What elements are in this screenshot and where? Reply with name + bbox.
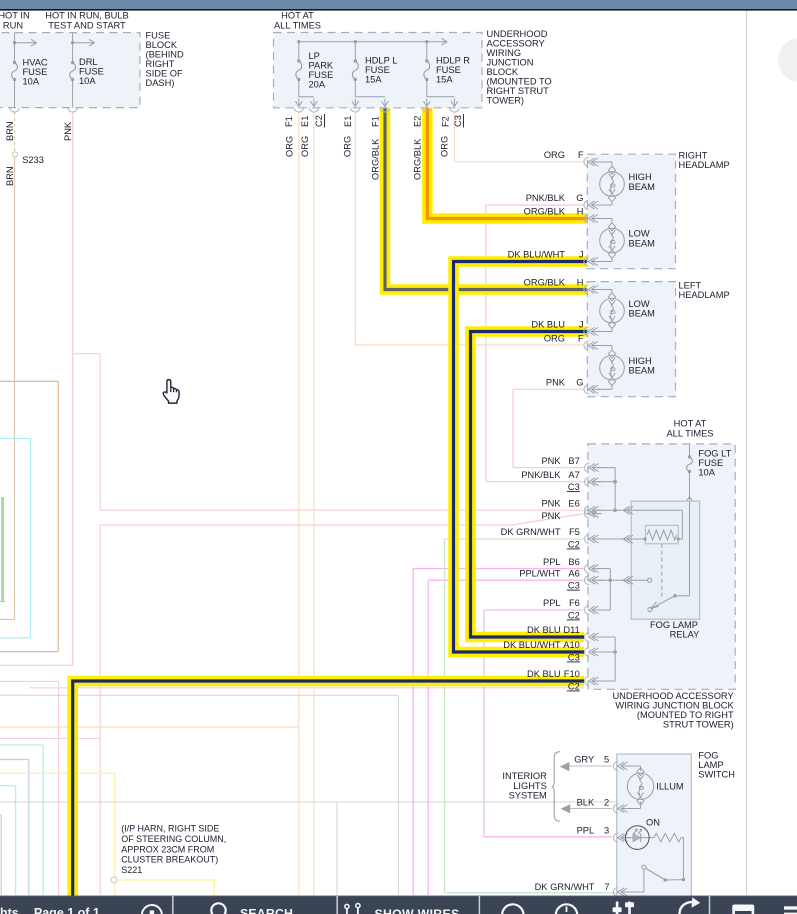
svg-text:S221: S221: [121, 865, 142, 875]
svg-text:ORG/BLK: ORG/BLK: [524, 278, 566, 288]
svg-text:FUSE: FUSE: [436, 65, 461, 75]
svg-text:PNK: PNK: [546, 378, 566, 388]
svg-text:RELAY: RELAY: [670, 630, 700, 640]
svg-text:Page 1 of 1: Page 1 of 1: [34, 906, 100, 914]
svg-text:F2: F2: [441, 116, 451, 127]
svg-text:SEARCH: SEARCH: [240, 907, 293, 914]
svg-text:BRN: BRN: [5, 121, 15, 141]
svg-text:SIDE OF: SIDE OF: [146, 69, 184, 79]
svg-text:SYSTEM: SYSTEM: [509, 791, 547, 801]
svg-text:TEST AND START: TEST AND START: [48, 21, 126, 31]
svg-text:G: G: [576, 193, 583, 203]
svg-text:INTERIOR: INTERIOR: [502, 771, 547, 781]
svg-text:F1: F1: [284, 116, 294, 127]
svg-text:HDLP L: HDLP L: [365, 56, 397, 66]
svg-text:F6: F6: [569, 598, 580, 608]
svg-text:DASH): DASH): [146, 78, 175, 88]
svg-text:ORG: ORG: [285, 136, 295, 157]
svg-text:C2: C2: [314, 115, 324, 127]
svg-text:ORG: ORG: [300, 136, 310, 157]
svg-text:D11: D11: [563, 625, 579, 635]
svg-text:HIGH: HIGH: [629, 172, 652, 182]
svg-text:LEFT: LEFT: [679, 280, 702, 290]
svg-text:A10: A10: [563, 640, 580, 650]
svg-text:DRL: DRL: [79, 57, 98, 67]
svg-text:DK BLU/WHT: DK BLU/WHT: [508, 250, 566, 260]
svg-text:7: 7: [604, 882, 609, 892]
svg-text:PPL: PPL: [577, 826, 595, 836]
svg-text:A7: A7: [568, 470, 579, 480]
svg-text:LOW: LOW: [629, 299, 650, 309]
svg-text:FUSE: FUSE: [146, 31, 171, 41]
svg-text:STRUT TOWER): STRUT TOWER): [663, 720, 734, 730]
svg-text:HOT AT: HOT AT: [281, 11, 314, 21]
svg-text:PNK: PNK: [63, 121, 73, 141]
svg-text:RUN: RUN: [3, 21, 23, 31]
svg-text:E1: E1: [300, 116, 310, 127]
svg-text:FOG: FOG: [698, 750, 718, 760]
svg-text:FOG LAMP: FOG LAMP: [650, 620, 698, 630]
svg-text:JUNCTION: JUNCTION: [487, 58, 534, 68]
svg-text:WIRING JUNCTION BLOCK: WIRING JUNCTION BLOCK: [615, 701, 734, 711]
svg-text:A6: A6: [568, 568, 579, 578]
svg-text:15A: 15A: [365, 75, 382, 85]
svg-text:F: F: [578, 334, 584, 344]
svg-text:ALL TIMES: ALL TIMES: [666, 429, 713, 439]
svg-text:E6: E6: [568, 499, 579, 509]
svg-text:FUSE: FUSE: [309, 70, 334, 80]
svg-text:BEAM: BEAM: [629, 182, 655, 192]
svg-text:PNK/BLK: PNK/BLK: [526, 193, 566, 203]
svg-text:ON: ON: [646, 818, 660, 828]
svg-text:PNK/BLK: PNK/BLK: [521, 470, 561, 480]
svg-text:GRY: GRY: [574, 755, 594, 765]
svg-text:H: H: [577, 207, 584, 217]
svg-text:BEAM: BEAM: [629, 309, 655, 319]
svg-text:F1: F1: [370, 116, 380, 127]
svg-text:BLK: BLK: [577, 797, 595, 807]
svg-text:B7: B7: [568, 456, 579, 466]
svg-text:HIGH: HIGH: [629, 356, 652, 366]
svg-text:H: H: [577, 278, 584, 288]
svg-text:PARK: PARK: [309, 61, 334, 71]
svg-text:LP: LP: [309, 51, 320, 61]
svg-text:HEADLAMP: HEADLAMP: [679, 290, 730, 300]
svg-text:J: J: [579, 250, 584, 260]
svg-text:(BEHIND: (BEHIND: [146, 50, 185, 60]
svg-text:SHOW WIRES: SHOW WIRES: [375, 907, 460, 914]
svg-text:ORG: ORG: [544, 150, 565, 160]
svg-text:LAMP: LAMP: [698, 760, 723, 770]
svg-text:FUSE: FUSE: [365, 65, 390, 75]
svg-text:ORG/BLK: ORG/BLK: [524, 207, 566, 217]
svg-text:DK GRN/WHT: DK GRN/WHT: [535, 882, 595, 892]
svg-text:F10: F10: [564, 669, 580, 679]
svg-text:ACCESSORY: ACCESSORY: [487, 39, 545, 49]
svg-text:BEAM: BEAM: [629, 238, 655, 248]
svg-text:UNDERHOOD ACCESSORY: UNDERHOOD ACCESSORY: [612, 691, 733, 701]
svg-text:F5: F5: [569, 527, 580, 537]
svg-text:C3: C3: [568, 652, 580, 662]
svg-text:BRN: BRN: [5, 166, 15, 186]
svg-text:(MOUNTED TO: (MOUNTED TO: [487, 77, 552, 87]
svg-text:DK BLU: DK BLU: [527, 625, 561, 635]
svg-text:hts: hts: [0, 906, 19, 914]
svg-text:3: 3: [604, 826, 609, 836]
svg-text:FUSE: FUSE: [698, 458, 723, 468]
svg-text:PPL: PPL: [543, 598, 561, 608]
svg-text:CLUSTER BREAKOUT): CLUSTER BREAKOUT): [121, 855, 218, 865]
svg-text:HVAC: HVAC: [23, 58, 48, 68]
svg-text:(MOUNTED TO RIGHT: (MOUNTED TO RIGHT: [637, 710, 734, 720]
svg-text:TOWER): TOWER): [487, 96, 525, 106]
svg-text:ORG/BLK: ORG/BLK: [370, 138, 380, 180]
svg-text:FUSE: FUSE: [23, 67, 48, 77]
svg-text:10A: 10A: [23, 77, 40, 87]
svg-text:RIGHT STRUT: RIGHT STRUT: [487, 86, 550, 96]
svg-text:APPROX 23CM FROM: APPROX 23CM FROM: [121, 844, 214, 854]
svg-text:C2: C2: [568, 610, 580, 620]
svg-text:J: J: [579, 320, 584, 330]
svg-text:HDLP R: HDLP R: [436, 56, 470, 66]
svg-text:B6: B6: [568, 557, 579, 567]
svg-text:SWITCH: SWITCH: [698, 770, 735, 780]
svg-text:C2: C2: [568, 539, 580, 549]
svg-text:LIGHTS: LIGHTS: [513, 781, 547, 791]
svg-text:ALL TIMES: ALL TIMES: [274, 21, 321, 31]
svg-text:HEADLAMP: HEADLAMP: [679, 160, 730, 170]
svg-text:C2: C2: [568, 681, 580, 691]
svg-text:10A: 10A: [79, 76, 96, 86]
svg-text:BLOCK: BLOCK: [487, 67, 519, 77]
svg-text:BLOCK: BLOCK: [146, 40, 178, 50]
svg-text:C3: C3: [568, 482, 580, 492]
svg-text:ORG: ORG: [440, 136, 450, 157]
svg-text:ILLUM: ILLUM: [656, 782, 683, 792]
svg-text:HOT AT: HOT AT: [674, 419, 707, 429]
svg-text:PNK: PNK: [541, 499, 561, 509]
svg-text:RIGHT: RIGHT: [679, 151, 708, 161]
svg-text:FOG LT: FOG LT: [698, 449, 731, 459]
svg-text:PNK: PNK: [541, 511, 561, 521]
svg-text:(I/P HARN, RIGHT SIDE: (I/P HARN, RIGHT SIDE: [121, 824, 219, 834]
svg-text:HOT IN RUN, BULB: HOT IN RUN, BULB: [45, 11, 129, 21]
svg-text:LOW: LOW: [629, 229, 650, 239]
svg-text:ORG: ORG: [544, 334, 565, 344]
svg-text:E1: E1: [343, 116, 353, 127]
svg-text:FUSE: FUSE: [79, 67, 104, 77]
svg-text:S233: S233: [22, 155, 44, 165]
svg-text:WIRING: WIRING: [487, 48, 522, 58]
svg-text:DK BLU: DK BLU: [531, 320, 565, 330]
svg-text:5: 5: [604, 755, 609, 765]
svg-text:C3: C3: [453, 115, 463, 127]
svg-text:G: G: [576, 378, 583, 388]
svg-text:ORG/BLK: ORG/BLK: [413, 138, 423, 180]
svg-text:DK BLU: DK BLU: [527, 669, 561, 679]
svg-text:HOT IN: HOT IN: [0, 11, 30, 21]
svg-text:OF STEERING COLUMN,: OF STEERING COLUMN,: [121, 834, 226, 844]
svg-text:PNK: PNK: [541, 456, 561, 466]
svg-text:15A: 15A: [436, 75, 453, 85]
svg-text:10A: 10A: [698, 468, 715, 478]
svg-text:ORG: ORG: [343, 136, 353, 157]
svg-text:2: 2: [604, 797, 609, 807]
svg-text:C3: C3: [568, 581, 580, 591]
svg-text:UNDERHOOD: UNDERHOOD: [487, 29, 548, 39]
svg-text:BEAM: BEAM: [629, 366, 655, 376]
svg-text:DK GRN/WHT: DK GRN/WHT: [501, 527, 561, 537]
svg-text:E2: E2: [413, 116, 423, 127]
svg-text:DK BLU/WHT: DK BLU/WHT: [503, 640, 561, 650]
svg-text:RIGHT: RIGHT: [146, 59, 175, 69]
svg-text:20A: 20A: [309, 80, 326, 90]
svg-text:PPL/WHT: PPL/WHT: [519, 568, 561, 578]
svg-text:PPL: PPL: [543, 557, 561, 567]
svg-text:F: F: [578, 150, 584, 160]
